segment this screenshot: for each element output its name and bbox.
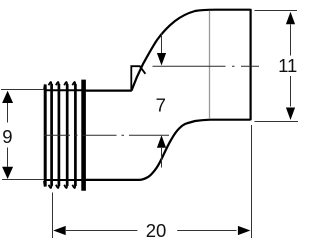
neck top edge [86,89,132,91]
svg-text:9: 9 [2,126,12,147]
body lower profile: bottom edge and S-curve to neck [86,120,251,180]
seal fin 1 (left end disc) [44,85,47,187]
body upper profile S-curve and top edge [132,10,251,91]
dim 11: bottom extension line [255,121,299,123]
flange thick rib [81,80,86,191]
dim 9: bottom extension line [2,179,44,181]
dim 11: dimension line segments [290,25,292,107]
seal fin 5 [74,84,77,186]
dim 20: right arrow [238,226,251,235]
seal fin 2 [50,84,53,186]
seal fin 4 [66,84,69,186]
svg-text:20: 20 [146,220,167,241]
dim 20: left extension line [52,193,54,239]
dim 20: left arrow [53,226,65,235]
dim 11: up arrow [286,12,295,24]
dim 7: lower arrow leader [161,148,163,168]
sleeve web top line [44,89,86,91]
socket depth line (gray) [209,11,211,119]
dim 7: lower arrow (points up to inlet axis) [157,135,166,148]
outlet centerline (dash-dot) [153,65,260,67]
dim 11: down arrow [286,108,295,121]
dim 7: upper arrow (points down to outlet axis) [157,53,166,66]
alignment tab on upper curve [131,66,145,90]
svg-text:7: 7 [156,95,166,116]
inlet centerline (dash-dot) [44,134,169,136]
dim 20: right extension line [251,125,253,238]
dim 7: upper arrow leader [161,34,163,54]
dim 9: dimension line segments [7,103,9,167]
outlet right edge [250,9,252,120]
dim 11: top extension line [255,10,298,12]
svg-text:11: 11 [278,55,297,76]
seal fin 3 [58,84,61,186]
dim 9: up arrow [2,91,13,103]
dim 9: top extension line [1,89,44,91]
dim 9: down arrow [2,167,13,179]
sleeve web bottom line [44,179,86,181]
dim 20: dimension line segments [66,230,237,232]
